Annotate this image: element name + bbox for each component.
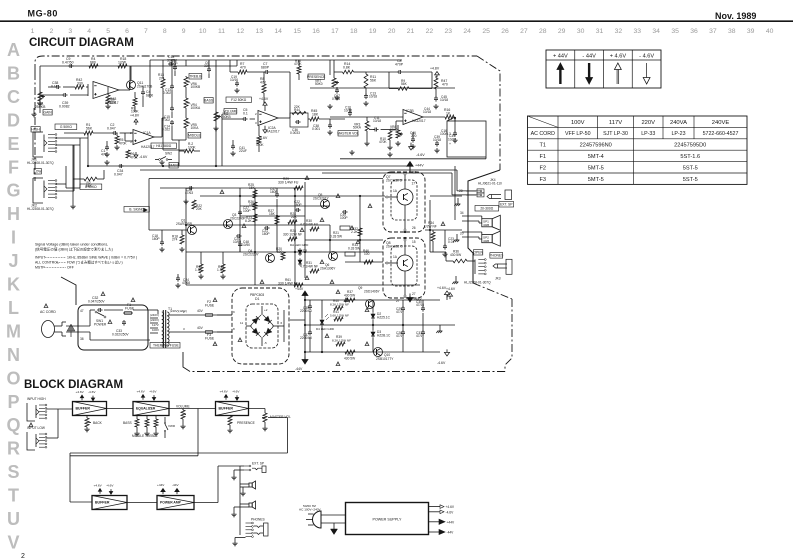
wire power amp mid bus y225 xyxy=(186,224,330,226)
svg-text:33: 33 xyxy=(634,28,642,35)
svg-text:27: 27 xyxy=(520,28,528,35)
svg-text:1KHz, 85dBm SINE WAVE ( 0dBm: 1KHz, 85dBm SINE WAVE ( 0dBm = 0.775V ) xyxy=(67,256,137,260)
ground VR1 xyxy=(39,101,41,103)
svg-text:OPEN: OPEN xyxy=(473,250,483,254)
svg-text:2.2K: 2.2K xyxy=(351,230,358,234)
power section enclosure xyxy=(78,305,148,350)
svg-text:M: M xyxy=(6,321,21,341)
svg-text:VOLUME: VOLUME xyxy=(176,405,191,409)
relay box outline right xyxy=(447,121,486,157)
svg-text:20K: 20K xyxy=(196,207,203,211)
transistor Q1 2SA970M xyxy=(188,226,197,235)
svg-text:10: 10 xyxy=(199,28,207,35)
svg-text:C: C xyxy=(7,87,20,107)
svg-text:-4.6V: -4.6V xyxy=(416,153,425,157)
svg-text:-4.6V: -4.6V xyxy=(437,361,446,365)
svg-text:VFF LP-50: VFF LP-50 xyxy=(565,131,591,137)
svg-text:50KA: 50KA xyxy=(353,126,362,130)
circuit outer border top edge xyxy=(35,56,477,72)
block speaker SP2 xyxy=(249,503,252,507)
svg-text:180P: 180P xyxy=(152,237,160,241)
svg-text:5MT-5: 5MT-5 xyxy=(588,165,604,171)
svg-text:19: 19 xyxy=(369,28,377,35)
resistor R9 100K xyxy=(133,98,137,106)
wire vertical x222 xyxy=(221,114,223,166)
ground speakers xyxy=(456,238,458,240)
potentiometer VR1 250KB xyxy=(38,92,42,101)
svg-text:HZ25.1C: HZ25.1C xyxy=(377,315,391,319)
svg-text:I: I xyxy=(11,228,16,248)
svg-text:+ 4.6V: + 4.6V xyxy=(610,54,627,60)
circuit outer border lower right diagonal xyxy=(473,283,512,299)
bridge diode top-left xyxy=(251,315,261,325)
transistor Q10 2SB1017Y xyxy=(374,348,383,357)
svg-text:47: 47 xyxy=(80,309,84,313)
transistor Q3 2SC2240P xyxy=(224,220,233,229)
svg-text:17: 17 xyxy=(331,28,339,35)
block POWER SUPPLY box xyxy=(346,503,429,535)
jack JK3 phones contacts xyxy=(478,259,485,261)
svg-text:11: 11 xyxy=(240,321,243,325)
block tone switch xyxy=(164,417,166,422)
wire output node vertical xyxy=(429,200,431,252)
circuit outer border bottom left step xyxy=(183,352,190,372)
wire stage3 top rail xyxy=(330,59,402,61)
potentiometer VR4 100KA xyxy=(184,98,188,108)
svg-text:47/63: 47/63 xyxy=(185,191,193,195)
power transistor Q8 2SA1302 dashed module xyxy=(383,238,425,298)
svg-text:180P: 180P xyxy=(262,232,270,236)
wire stage2 top rail xyxy=(237,59,330,61)
block PRESENCE pot xyxy=(228,416,232,425)
circuit outer border lower right edge xyxy=(505,299,512,372)
svg-text:34: 34 xyxy=(460,211,464,215)
legend arrow -44V filled down xyxy=(586,78,593,85)
svg-text:35: 35 xyxy=(671,28,679,35)
legend arrow +4.6V open up xyxy=(614,63,621,70)
svg-text:470K: 470K xyxy=(119,141,127,145)
boxed label LOW input xyxy=(34,169,41,175)
wire power internal xyxy=(66,325,90,327)
wire regulator bus y300 xyxy=(305,299,440,301)
svg-text:220V: 220V xyxy=(641,120,655,126)
svg-text:EQUALIZER: EQUALIZER xyxy=(136,407,156,411)
svg-text:HLJ0621-01-110: HLJ0621-01-110 xyxy=(478,182,502,186)
block loop return vertical xyxy=(69,453,71,502)
boxed label OPEN xyxy=(474,250,483,256)
bridge rectifier D1 outer dashed module xyxy=(232,288,289,364)
svg-text:430 5W: 430 5W xyxy=(344,294,356,298)
svg-text:240VE: 240VE xyxy=(712,120,730,126)
block loop bus lower wire xyxy=(70,455,198,457)
arrow -4.6V IC3B xyxy=(409,147,414,150)
svg-text:+44V: +44V xyxy=(447,520,455,524)
grey arrow at AC input xyxy=(67,324,75,331)
jack JK3 plug prong xyxy=(493,264,507,268)
svg-text:29: 29 xyxy=(558,28,566,35)
svg-text:P: P xyxy=(7,392,19,412)
svg-text:INPUT HIGH: INPUT HIGH xyxy=(27,397,46,401)
boxed label HIGH input xyxy=(31,127,40,133)
wire jack routing xyxy=(56,137,88,139)
boxed label VOLUME preamp xyxy=(55,124,77,130)
svg-text:100V: 100V xyxy=(152,328,159,332)
svg-text:56K: 56K xyxy=(86,126,93,130)
svg-text:10KA: 10KA xyxy=(191,126,200,130)
block loop bus upper wire xyxy=(70,452,288,454)
svg-text:0.0033: 0.0033 xyxy=(290,131,300,135)
svg-text:MAIN: MAIN xyxy=(169,163,178,167)
op-amp IC1B xyxy=(93,82,119,99)
wire to SP1 xyxy=(462,215,482,217)
svg-text:15K: 15K xyxy=(249,186,256,190)
svg-text:HA12017: HA12017 xyxy=(412,119,426,123)
svg-text:15K: 15K xyxy=(269,212,276,216)
jack JK1 sleeve outline xyxy=(33,132,43,157)
block POWER AMP xyxy=(157,496,194,510)
bridge diode bottom-right xyxy=(263,327,273,337)
op-amp IC3B xyxy=(403,110,423,125)
svg-text:+4.6V: +4.6V xyxy=(446,505,455,509)
svg-text:HA12017: HA12017 xyxy=(266,130,280,134)
svg-text:0.0082: 0.0082 xyxy=(59,105,70,109)
svg-text:BUFFER: BUFFER xyxy=(219,407,234,411)
transistor Q4 2SC2229Y xyxy=(266,254,275,263)
block power supply output +44V xyxy=(429,521,440,523)
block plug wires and ground xyxy=(321,514,346,516)
jack JK4 plug prong xyxy=(487,195,501,199)
bridge diode bottom-left xyxy=(251,327,261,337)
svg-text:8: 8 xyxy=(163,28,167,35)
svg-text:+44V: +44V xyxy=(295,287,304,291)
svg-text:26: 26 xyxy=(412,226,416,230)
resistor R6 470K feedback xyxy=(126,150,130,158)
svg-text:MIDDLE TREBLE: MIDDLE TREBLE xyxy=(132,434,158,438)
zener diode D3 HZ2B.1C xyxy=(372,330,374,338)
svg-text:4.7 1/4W FU: 4.7 1/4W FU xyxy=(300,223,319,227)
wire regulator out vertical x447 xyxy=(446,295,448,300)
wire IC2A output xyxy=(278,117,290,119)
wire vertical x216 stage2 xyxy=(215,60,217,166)
boxed label H41 580 xyxy=(151,143,176,149)
svg-text:39: 39 xyxy=(747,28,755,35)
svg-text:G: G xyxy=(6,181,20,201)
transistor Q7 symbol xyxy=(391,180,417,220)
svg-text:22UF: 22UF xyxy=(239,149,247,153)
svg-text:BASS: BASS xyxy=(204,98,214,102)
svg-text:28: 28 xyxy=(539,28,547,35)
svg-text:-44V: -44V xyxy=(447,531,455,535)
wire power amp extra v2 xyxy=(276,206,278,252)
svg-text:MG-80: MG-80 xyxy=(28,9,59,19)
svg-text:BLOCK DIAGRAM: BLOCK DIAGRAM xyxy=(24,379,123,391)
legend arrow +44V filled up xyxy=(557,63,564,70)
svg-text:HLJ2308-01-307Q: HLJ2308-01-307Q xyxy=(464,281,491,285)
wire pod feed lines xyxy=(430,195,462,197)
svg-text:16: 16 xyxy=(312,28,320,35)
component R44 22K / C36 0.0033 network xyxy=(290,113,308,127)
svg-text:PBPC803: PBPC803 xyxy=(250,293,264,297)
svg-text:9: 9 xyxy=(182,28,186,35)
svg-text:B 50KΩ: B 50KΩ xyxy=(85,185,97,189)
svg-text:D4 LED GRD: D4 LED GRD xyxy=(316,327,335,331)
svg-text:S: S xyxy=(7,462,19,482)
svg-text:F1: F1 xyxy=(539,154,546,160)
wire bus y159 to relay box xyxy=(340,158,486,160)
svg-text:0.047: 0.047 xyxy=(114,173,123,177)
wire transformer secondary to bridge xyxy=(217,314,232,316)
wire -44V feed from Q8 box xyxy=(409,296,411,302)
wire power amp extra h4 xyxy=(305,239,383,241)
boxed label MIDDLE xyxy=(188,133,201,139)
svg-text:- 4.6V: - 4.6V xyxy=(639,54,654,60)
svg-text:5ST-5: 5ST-5 xyxy=(683,177,698,183)
svg-text:LOW: LOW xyxy=(34,169,42,173)
boxed label B 50 ohm xyxy=(80,184,102,190)
svg-text:FUSE: FUSE xyxy=(205,303,215,307)
svg-text:PHONES: PHONES xyxy=(489,254,504,258)
boxed label EXT SP xyxy=(499,202,514,208)
block BUFFER 1 xyxy=(73,402,107,416)
svg-text:470K: 470K xyxy=(294,62,302,66)
svg-text:H41 580Ω: H41 580Ω xyxy=(156,144,172,148)
svg-text:100K: 100K xyxy=(188,145,196,149)
arrow -4.6V regulator open xyxy=(444,352,449,356)
block power supply output -4.6V xyxy=(429,511,441,513)
svg-text:22K: 22K xyxy=(294,105,301,109)
jack JK4 contact row 2 xyxy=(466,194,476,196)
op-amp IC2A xyxy=(258,111,278,126)
svg-text:CIRCUIT DIAGRAM: CIRCUIT DIAGRAM xyxy=(29,37,134,49)
svg-text:B. SIGNΩ: B. SIGNΩ xyxy=(129,207,144,211)
svg-text:100KB: 100KB xyxy=(191,85,201,89)
svg-text:0.8K: 0.8K xyxy=(343,65,351,69)
wire to SP2 xyxy=(462,231,482,233)
svg-text:28: 28 xyxy=(459,189,463,193)
arrow +44V output stage filled xyxy=(407,162,413,167)
svg-text:18K: 18K xyxy=(312,112,319,116)
svg-text:100: 100 xyxy=(364,252,370,256)
svg-text:10/18: 10/18 xyxy=(448,137,456,141)
transistor Q5 2SC3291Y xyxy=(321,200,330,209)
svg-text:-4.6V: -4.6V xyxy=(232,389,240,393)
circuit outer border bottom edge xyxy=(190,371,505,373)
svg-text:2SA1306Y: 2SA1306Y xyxy=(320,266,336,270)
svg-text:(220V): (220V) xyxy=(150,318,159,322)
svg-text:20-300Ω: 20-300Ω xyxy=(480,206,493,210)
svg-text:5MT-5: 5MT-5 xyxy=(588,177,604,183)
svg-text:+4.8V: +4.8V xyxy=(430,67,440,71)
arrow -4.6V IC2A xyxy=(263,130,267,133)
svg-text:POWER: POWER xyxy=(94,322,107,326)
boxed label MAIN under SW2 xyxy=(169,163,178,169)
svg-text:430 5W: 430 5W xyxy=(450,253,462,257)
svg-text:HLJ2308-01-307Q: HLJ2308-01-307Q xyxy=(27,161,54,165)
svg-text:50K0: 50K0 xyxy=(315,82,323,86)
potentiometer VR6 100KB treble xyxy=(184,77,188,87)
capacitor C15 0.002 xyxy=(171,106,173,108)
bridge output wires xyxy=(278,325,284,327)
svg-text:-44V: -44V xyxy=(172,483,180,487)
svg-text:430 5W: 430 5W xyxy=(344,357,356,361)
potentiometer VR2 250KB xyxy=(214,112,218,121)
svg-text:330 1/2W NF: 330 1/2W NF xyxy=(283,233,302,237)
svg-text:LP-23: LP-23 xyxy=(671,131,685,137)
boxed label BASS xyxy=(204,98,213,104)
svg-text:56K: 56K xyxy=(401,82,408,86)
AC cord and fuse table xyxy=(528,116,748,184)
svg-text:HZ2B.1C: HZ2B.1C xyxy=(377,333,391,337)
svg-text:IC1A: IC1A xyxy=(143,131,151,135)
svg-text:4.7 1/4W NF: 4.7 1/4W NF xyxy=(300,265,318,269)
power amp enclosure top edge xyxy=(149,178,383,180)
svg-text:0.047/250V: 0.047/250V xyxy=(88,300,105,304)
svg-text:AC CORD: AC CORD xyxy=(40,310,56,314)
wire power amp extra v5 xyxy=(329,225,331,252)
svg-text:+4.6V: +4.6V xyxy=(437,286,447,290)
zener diode D2 HZ25.1C xyxy=(372,312,374,320)
svg-text:-4.6V: -4.6V xyxy=(106,483,114,487)
jack JK2 contacts xyxy=(48,180,56,182)
boxed label VOLUME xyxy=(224,109,237,115)
wire tone input xyxy=(149,92,151,98)
svg-text:F: F xyxy=(8,157,19,177)
svg-text:-4.6V: -4.6V xyxy=(139,155,148,159)
svg-text:10/50: 10/50 xyxy=(242,243,250,247)
svg-text:3: 3 xyxy=(68,28,72,35)
svg-text:25: 25 xyxy=(482,28,490,35)
svg-text:EXT. SP: EXT. SP xyxy=(500,202,513,206)
circuit outer border lower-left diagonal xyxy=(61,277,76,305)
svg-text:SW2: SW2 xyxy=(165,152,172,156)
svg-text:14: 14 xyxy=(274,28,282,35)
svg-text:+: + xyxy=(449,142,451,146)
svg-text:37: 37 xyxy=(709,28,717,35)
svg-text:1/2W NF: 1/2W NF xyxy=(424,225,437,229)
wire regulator bus y352 xyxy=(305,351,440,353)
svg-text:BUFFER: BUFFER xyxy=(95,501,110,505)
ground jack JK4 xyxy=(457,202,459,204)
wire power amp bus y252 xyxy=(186,251,383,253)
jack JK4 contact row 1 xyxy=(466,190,476,192)
svg-text:R: R xyxy=(7,439,20,459)
svg-text:- 44V: - 44V xyxy=(582,54,596,60)
voltage legend table frame xyxy=(546,50,661,88)
LED D4 GRN xyxy=(321,318,323,326)
svg-text:30: 30 xyxy=(577,28,585,35)
svg-text:TREB.B: TREB.B xyxy=(189,74,202,78)
svg-text:DA LED GRD: DA LED GRD xyxy=(290,243,309,247)
arrow +44V regulator filled xyxy=(302,291,308,296)
transistor Q9 2SD1406Y xyxy=(366,300,375,309)
svg-text:+4.6V: +4.6V xyxy=(76,390,85,394)
speaker SP1 xyxy=(482,219,492,227)
svg-text:27: 27 xyxy=(396,299,400,303)
transistor Q6 2SA1306Y xyxy=(329,252,338,261)
svg-text:THERMAL FUSE: THERMAL FUSE xyxy=(153,344,179,348)
svg-text:8.2K: 8.2K xyxy=(245,219,252,223)
svg-text:100P: 100P xyxy=(243,209,251,213)
svg-text:INPUT: INPUT xyxy=(35,256,46,260)
svg-text:MIDDLE: MIDDLE xyxy=(188,133,201,137)
power amp enclosure base wire to Q1 xyxy=(149,229,188,231)
ground phones jack xyxy=(455,280,457,282)
block AC plug xyxy=(313,511,322,528)
speaker SP2 xyxy=(482,235,492,243)
svg-text:10/18: 10/18 xyxy=(369,95,377,99)
svg-text:4ΩB: 4ΩB xyxy=(483,223,489,227)
svg-text:0.047: 0.047 xyxy=(107,126,116,130)
jack JK2 sleeve outline xyxy=(33,178,43,203)
svg-text:FDW (つまみ類はすべて右いっぱい): FDW (つまみ類はすべて右いっぱい) xyxy=(67,260,123,265)
svg-text:2: 2 xyxy=(50,28,54,35)
svg-text:1/2W: 1/2W xyxy=(118,61,127,65)
svg-text:38: 38 xyxy=(80,337,84,341)
svg-text:10/18: 10/18 xyxy=(423,110,431,114)
diodes D4 D5 bias xyxy=(299,248,301,256)
wire power amp input bus y188 xyxy=(160,187,300,189)
wire +44V feed to Q7 box xyxy=(409,166,411,172)
svg-text:470P: 470P xyxy=(395,62,404,66)
svg-text:-4.6V: -4.6V xyxy=(149,389,157,393)
svg-text:F2: F2 xyxy=(539,165,546,171)
svg-text:D: D xyxy=(7,110,20,130)
wire R16 to relay box xyxy=(447,117,455,121)
svg-text:VWR: VWR xyxy=(168,424,176,428)
wire power amp extra v4 xyxy=(359,196,361,262)
svg-text:2SB1017TY: 2SB1017TY xyxy=(376,357,394,361)
svg-text:ALL CONTROL: ALL CONTROL xyxy=(35,261,59,265)
junction dots power amp xyxy=(239,195,241,197)
svg-text:22: 22 xyxy=(426,28,434,35)
boxed label PRESENCE xyxy=(308,74,324,80)
svg-text:HA12017: HA12017 xyxy=(141,145,155,149)
svg-text:330P: 330P xyxy=(170,62,178,66)
svg-text:2: 2 xyxy=(21,553,25,560)
svg-text:23: 23 xyxy=(445,28,453,35)
wire right column vertical x455 xyxy=(454,117,456,121)
wire bus y173 right xyxy=(322,172,452,174)
svg-text:D1: D1 xyxy=(255,297,259,301)
svg-text:31: 31 xyxy=(596,28,604,35)
svg-text:G 50KΩ: G 50KΩ xyxy=(60,125,72,129)
svg-text:32: 32 xyxy=(615,28,623,35)
svg-text:117V: 117V xyxy=(152,323,159,327)
wire power amp bus y285 xyxy=(186,284,420,286)
svg-text:40V: 40V xyxy=(197,326,204,330)
svg-text:O: O xyxy=(6,368,20,388)
arrow +4.6V regulator open xyxy=(444,291,449,295)
wire ic1a output xyxy=(154,136,162,138)
svg-text:AC 100V~240V: AC 100V~240V xyxy=(299,508,322,512)
svg-text:IC3B: IC3B xyxy=(406,109,414,113)
wire presence rail xyxy=(310,87,455,89)
svg-text:2SA1170B: 2SA1170B xyxy=(137,85,152,89)
wire power amp extra h1 xyxy=(200,195,385,197)
block BASS pot xyxy=(135,419,139,427)
svg-text:BUFFER: BUFFER xyxy=(76,407,91,411)
svg-text:11: 11 xyxy=(218,28,225,35)
circuit outer border top-right diagonal and right edge xyxy=(477,56,500,170)
svg-text:+4.6V: +4.6V xyxy=(94,483,103,487)
svg-text:2SC3291Y: 2SC3291Y xyxy=(313,196,329,200)
svg-text:GAIN: GAIN xyxy=(44,110,53,114)
svg-text:BASS: BASS xyxy=(123,421,132,425)
legend arrow -4.6V open down xyxy=(643,78,650,85)
capacitor C13 0.022 xyxy=(171,84,173,86)
svg-text:100P: 100P xyxy=(340,216,348,220)
svg-text:26: 26 xyxy=(501,28,509,35)
